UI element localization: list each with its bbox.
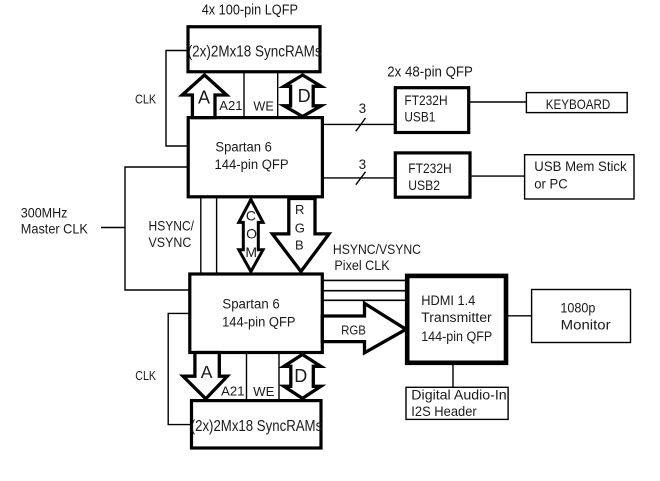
svg-text:RGB: RGB <box>341 322 366 337</box>
svg-text:USB1: USB1 <box>404 110 435 125</box>
wire Spartan1 to USB2 (3-bit) <box>322 177 395 179</box>
svg-text:HSYNC/VSYNC: HSYNC/VSYNC <box>333 241 421 257</box>
FPGA U5 Spartan 6 bottom <box>190 274 322 353</box>
svg-text:A21: A21 <box>221 384 244 399</box>
wire Spartan2 to HDMI thin 1 <box>322 279 407 281</box>
wire HDMI to Monitor <box>506 315 532 317</box>
svg-text:Spartan 6: Spartan 6 <box>222 296 279 311</box>
wire USB1 to KEYBOARD <box>469 101 527 103</box>
svg-text:D: D <box>294 366 307 386</box>
svg-text:CLK: CLK <box>135 368 156 383</box>
svg-text:(2x)2Mx18 SyncRAMs: (2x)2Mx18 SyncRAMs <box>188 43 322 60</box>
wire USB2 to USB Mem Stick <box>470 175 525 177</box>
divider line A21/WE top cell 1 <box>243 73 245 118</box>
svg-text:3: 3 <box>359 157 367 172</box>
divider line A21/WE bottom cell 2 <box>278 353 280 401</box>
svg-text:Master CLK: Master CLK <box>21 221 89 237</box>
wire HDMI to I2S header <box>452 363 454 387</box>
label 300MHz Master CLK <box>21 204 89 236</box>
svg-text:144-pin QFP: 144-pin QFP <box>215 157 289 172</box>
RAM block U7 (2x)2Mx18 SyncRAMs bottom <box>191 401 323 448</box>
block arrow A down (Spartan2 address bus) <box>183 353 227 399</box>
block arrow D double bottom (data bus) <box>284 355 321 399</box>
bus slash USB1 wire <box>356 118 366 131</box>
svg-text:(2x)2Mx18 SyncRAMs: (2x)2Mx18 SyncRAMs <box>191 418 323 435</box>
svg-text:144-pin QFP: 144-pin QFP <box>421 329 492 344</box>
svg-text:WE: WE <box>253 384 275 399</box>
box 1080p Monitor <box>532 290 631 343</box>
wire Spartan2 to HDMI thin 3 <box>322 299 407 301</box>
svg-text:HDMI 1.4: HDMI 1.4 <box>421 293 476 308</box>
wire Spartan1 to USB1 (3-bit) <box>322 123 395 125</box>
svg-text:USB2: USB2 <box>408 178 440 193</box>
wire VSYNC vertical 2 (Spartan1 to Spartan2) <box>216 197 218 274</box>
svg-text:4x 100-pin LQFP: 4x 100-pin LQFP <box>202 2 298 19</box>
svg-text:G: G <box>295 221 305 236</box>
svg-text:R: R <box>295 202 304 217</box>
svg-text:Pixel CLK: Pixel CLK <box>334 257 390 273</box>
svg-text:O: O <box>246 225 257 241</box>
svg-text:or PC: or PC <box>534 176 567 192</box>
block arrow RGB down (Spartan1 to Spartan2) <box>272 199 329 272</box>
svg-text:FT232H: FT232H <box>408 161 451 176</box>
FPGA U2 Spartan 6 top <box>188 118 322 197</box>
box KEYBOARD <box>526 93 627 113</box>
svg-text:Spartan 6: Spartan 6 <box>215 140 272 155</box>
divider line A21/WE bottom cell 1 <box>246 353 248 401</box>
bus slash USB2 wire <box>356 172 366 185</box>
svg-text:A21: A21 <box>219 98 242 113</box>
svg-text:VSYNC: VSYNC <box>149 234 192 250</box>
wire CLK net bottom: Spartan2 left to SyncRAMs2 left <box>168 313 191 424</box>
box Digital Audio-In I2S Header <box>406 387 508 419</box>
svg-text:3: 3 <box>359 101 367 116</box>
RAM block U1 (2x)2Mx18 SyncRAMs top <box>188 27 322 72</box>
svg-text:C: C <box>246 208 256 224</box>
USB bridge U3 FT232H USB1 <box>395 88 468 133</box>
USB bridge U4 FT232H USB2 <box>395 153 470 197</box>
wire CLK net: SyncRAMs1 left to Spartan1 left <box>166 51 188 147</box>
block arrow D double top (data bus) <box>284 75 321 117</box>
svg-text:1080p: 1080p <box>560 300 595 316</box>
svg-text:300MHz: 300MHz <box>21 204 68 220</box>
svg-text:CLK: CLK <box>135 91 156 106</box>
block arrow COM double (Spartan1/Spartan2 link) <box>239 200 263 272</box>
HDMI transmitter U6 <box>407 276 506 363</box>
svg-text:A: A <box>198 88 210 108</box>
wire HSYNC vertical 1 (Spartan1 to Spartan2) <box>200 197 202 274</box>
svg-text:USB Mem Stick: USB Mem Stick <box>534 158 627 174</box>
svg-text:Monitor: Monitor <box>561 317 611 333</box>
svg-text:Digital Audio-In: Digital Audio-In <box>411 388 506 403</box>
label HSYNC/VSYNC left <box>149 218 195 251</box>
svg-text:KEYBOARD: KEYBOARD <box>546 96 611 112</box>
box USB Mem Stick or PC <box>525 155 634 199</box>
wire Spartan2 to HDMI thin 2 <box>322 290 407 292</box>
wire 300MHz master clock net (Spartan1 left / Spartan2 left) <box>125 167 190 290</box>
svg-text:2x 48-pin QFP: 2x 48-pin QFP <box>387 64 473 80</box>
svg-text:M: M <box>245 244 257 260</box>
svg-text:HSYNC/: HSYNC/ <box>149 218 195 234</box>
svg-text:FT232H: FT232H <box>404 93 447 108</box>
divider line A21/WE top cell 2 <box>277 73 279 118</box>
block arrow RGB right (Spartan2 to HDMI) <box>322 303 406 352</box>
wire stub to Master CLK label <box>101 227 125 229</box>
svg-text:Transmitter: Transmitter <box>421 310 492 325</box>
svg-text:144-pin QFP: 144-pin QFP <box>222 314 295 329</box>
svg-text:D: D <box>298 86 311 106</box>
svg-text:I2S Header: I2S Header <box>411 404 477 419</box>
svg-text:B: B <box>295 238 304 253</box>
block arrow A up (Spartan1 address bus) <box>182 75 226 118</box>
svg-text:A: A <box>201 362 213 382</box>
svg-text:WE: WE <box>253 99 274 114</box>
